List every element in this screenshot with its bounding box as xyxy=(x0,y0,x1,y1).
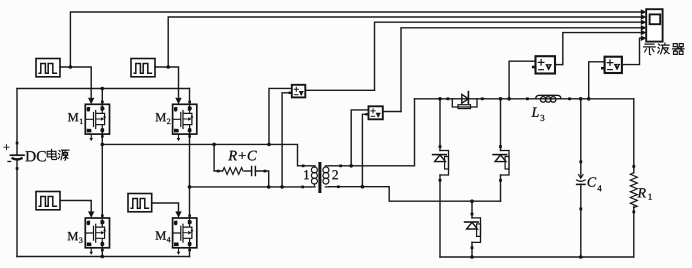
wire transformer secondary top to rectifier xyxy=(329,99,415,166)
node RC right tap xyxy=(267,185,271,189)
wire C4 voltmeter plus input xyxy=(509,61,535,99)
wire diode D3 branch upper xyxy=(500,99,502,151)
wire RC snubber right drop xyxy=(255,171,268,187)
wire M4 source xyxy=(189,248,191,257)
label 1 xyxy=(304,170,309,179)
wire primary voltmeter plus input xyxy=(269,88,292,144)
wire scope line 2 from M2 gate pulse xyxy=(168,17,641,67)
MOSFET M2 xyxy=(173,98,197,142)
wire primary voltmeter output xyxy=(305,89,374,91)
MOSFET M1 xyxy=(85,98,109,142)
wire node B column M2.S to M4.D xyxy=(189,134,191,218)
wire rectifier top rail to load xyxy=(415,98,634,100)
diode D4 bottom vertical xyxy=(465,213,481,250)
node B tap junction xyxy=(188,185,192,189)
MOSFET M4 xyxy=(173,211,197,255)
label DC电源 xyxy=(25,149,69,161)
wire secondary voltmeter minus input xyxy=(362,114,368,186)
wire M2 drain xyxy=(189,89,191,105)
transformer primary winding 1 xyxy=(311,166,317,187)
inductor L3 xyxy=(526,95,571,102)
node pulse1-scope junction xyxy=(69,65,73,69)
wire secondary voltmeter plus input xyxy=(351,110,368,166)
capacitor C4 xyxy=(577,160,585,210)
label 2 xyxy=(332,170,337,179)
wire R1 branch lower xyxy=(633,206,635,257)
wire scope line 4 from secondary voltmeter output xyxy=(401,28,641,112)
wire primary voltmeter minus input xyxy=(282,93,292,187)
DC source battery xyxy=(3,142,24,170)
wire node A line to transformer primary top xyxy=(102,144,311,165)
wire diode D4 branch lower xyxy=(471,242,473,257)
node A tap junction xyxy=(101,143,105,147)
pulse generator P2 xyxy=(131,59,155,77)
wire diode D2 branch lower xyxy=(439,175,441,257)
wire left DC rail lower xyxy=(16,159,18,257)
resistor R of snubber xyxy=(223,168,243,175)
diode D1 top horizontal xyxy=(447,92,484,109)
diode D2 left vertical xyxy=(433,145,449,182)
node sensor1 plus tap xyxy=(267,143,271,147)
wire pulse2 output to M2 gate xyxy=(155,67,179,97)
label C4 xyxy=(588,177,597,186)
oscilloscope block xyxy=(646,9,662,41)
wire pulse4 output to M4 gate xyxy=(152,203,179,211)
wire diode D3 branch lower xyxy=(500,175,502,201)
wire C4 branch lower xyxy=(580,184,582,257)
pulse generator P4 xyxy=(128,194,152,212)
node sensor2 plus tap xyxy=(349,164,353,168)
wire RC mid xyxy=(245,170,252,172)
wire node A column M1.S to M3.D xyxy=(101,134,103,218)
wire pulse3 output to M3 gate xyxy=(60,201,91,211)
transformer T core xyxy=(318,162,321,193)
wire transformer secondary bottom to rectifier AC2 xyxy=(329,187,501,202)
oscilloscope input arrows xyxy=(641,9,647,41)
transformer port squares xyxy=(301,165,342,189)
wire RC snubber left drop xyxy=(214,144,223,171)
wire pulse1 output to M1 gate xyxy=(60,67,91,97)
node C4 bottom tap xyxy=(579,255,583,259)
wire left DC rail upper xyxy=(16,89,18,155)
label R+C xyxy=(228,151,257,161)
node R1 voltmeter tap xyxy=(587,97,591,101)
node sensor1 minus tap xyxy=(280,185,284,189)
voltmeter U2 secondary xyxy=(365,106,383,119)
wire diode D4 branch upper xyxy=(471,201,473,218)
diode D3 right vertical xyxy=(493,145,509,182)
node D4 top tap xyxy=(470,199,474,203)
wire R1 branch upper xyxy=(633,99,635,173)
wire H-bridge bottom rail xyxy=(17,256,190,258)
label M4 xyxy=(156,231,166,239)
voltmeter U4 across R1 xyxy=(601,57,622,73)
pulse generator P1 xyxy=(36,59,60,77)
wire secondary voltmeter output xyxy=(383,111,401,113)
voltmeter U3 across C4 xyxy=(532,56,555,73)
node D2 top tap xyxy=(438,97,442,101)
wire C4 branch upper xyxy=(580,99,582,178)
node C4 voltmeter tap xyxy=(507,97,511,101)
node D3 top tap xyxy=(499,97,503,101)
label M2 xyxy=(156,113,166,121)
wire scope line 1 from M1 gate pulse xyxy=(70,12,641,67)
wire C4 voltmeter output xyxy=(555,64,563,66)
wire diode D2 branch upper xyxy=(439,99,441,151)
capacitor C of snubber xyxy=(252,166,256,175)
wire scope line 3 from primary voltmeter output xyxy=(375,22,642,90)
resistor R1 xyxy=(630,165,637,213)
label M1 xyxy=(68,113,78,121)
wire scope line 6 from R1 voltmeter output xyxy=(622,38,641,64)
node RC left tap xyxy=(212,143,216,147)
node M3 source junction xyxy=(101,255,105,259)
pulse generator P3 xyxy=(36,192,60,210)
MOSFET M3 xyxy=(85,211,109,255)
node sensor2 minus tap xyxy=(361,185,365,189)
label 示波器 xyxy=(644,43,684,55)
wire rectifier bottom rail xyxy=(440,256,634,258)
label L3 xyxy=(531,108,538,117)
node C4 branch tap xyxy=(579,97,583,101)
node D4 bottom tap xyxy=(470,255,474,259)
RC port squares xyxy=(217,170,220,173)
wire H-bridge top rail xyxy=(17,88,190,90)
wire M1 drain xyxy=(101,89,103,105)
voltmeter U1 primary xyxy=(289,85,306,98)
wire M3 source xyxy=(101,248,103,257)
label M3 xyxy=(68,232,78,240)
wire scope line 5 from C4 voltmeter output xyxy=(563,33,641,65)
wire node B line to transformer primary bottom xyxy=(190,186,312,188)
wire R1 voltmeter plus input xyxy=(589,62,605,99)
node pulse2-scope junction xyxy=(166,65,170,69)
node M1 drain junction xyxy=(101,87,105,91)
label R1 xyxy=(637,188,645,197)
transformer secondary winding 2 xyxy=(323,166,329,187)
